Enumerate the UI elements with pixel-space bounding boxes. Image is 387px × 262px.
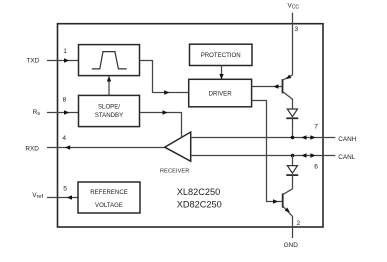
junction CANL node: [291, 154, 295, 158]
wire Vcc pin 3: [292, 13, 294, 75]
svg-text:SLOPE/: SLOPE/: [98, 103, 120, 110]
svg-text:Vref: Vref: [32, 192, 43, 200]
wire DRIVER output to Q2 base: [252, 101, 282, 202]
junction CANH node: [291, 136, 295, 140]
wire TXD pin 1: [47, 60, 79, 62]
svg-text:CANH: CANH: [338, 136, 356, 143]
wire PROTECTION down-arrow to DRIVER: [221, 66, 223, 80]
wire DRIVER output to Q1 base: [252, 86, 282, 88]
svg-text:XL82C250: XL82C250: [177, 187, 220, 197]
svg-text:RXD: RXD: [25, 145, 39, 152]
block PROTECTION: [190, 44, 253, 65]
svg-text:VCC: VCC: [288, 3, 300, 11]
svg-text:Rs: Rs: [33, 109, 41, 117]
block DRIVER: [189, 79, 252, 107]
svg-text:1: 1: [63, 48, 67, 55]
svg-text:4: 4: [62, 135, 66, 142]
block SLOPE/STANDBY: [79, 95, 140, 126]
wire Rs pin 8: [47, 112, 79, 114]
svg-text:3: 3: [295, 26, 299, 33]
svg-text:TXD: TXD: [27, 58, 40, 65]
svg-text:GND: GND: [284, 242, 299, 249]
svg-text:2: 2: [297, 220, 301, 227]
diode D2: [286, 156, 298, 189]
svg-text:DRIVER: DRIVER: [209, 90, 233, 97]
wire GND pin 2: [292, 216, 294, 238]
svg-text:STANDBY: STANDBY: [95, 112, 123, 119]
svg-text:VOLTAGE: VOLTAGE: [95, 202, 123, 209]
svg-text:RECEIVER: RECEIVER: [160, 169, 189, 175]
diode D1: [286, 109, 298, 138]
svg-text:7: 7: [314, 124, 318, 131]
op-amp RECEIVER comparator triangle: [165, 132, 191, 161]
wire RXD pin 4: [47, 147, 166, 149]
trapezoid waveform symbol: [92, 52, 127, 69]
chip outline: [58, 24, 324, 227]
svg-text:CANL: CANL: [338, 154, 355, 161]
svg-text:8: 8: [63, 96, 67, 103]
transistor Q1 high-side: [283, 75, 293, 109]
slew-rate limiter block (trapezoid waveform): [79, 45, 140, 76]
svg-text:6: 6: [314, 164, 318, 171]
wire Vref pin 5: [47, 197, 78, 199]
svg-text:XD82C250: XD82C250: [177, 199, 222, 209]
transistor Q2 low-side: [283, 189, 293, 217]
wire SLOPE/STANDBY to RECEIVER enable: [140, 113, 182, 138]
wire/net CANH pin 7: [191, 137, 336, 139]
wire limiter output to DRIVER input: [140, 61, 189, 93]
svg-text:PROTECTION: PROTECTION: [201, 52, 241, 59]
block REFERENCE VOLTAGE: [78, 182, 140, 213]
svg-text:5: 5: [63, 186, 67, 193]
wire SLOPE/STANDBY up-arrow to limiter: [108, 77, 110, 96]
svg-text:REFERENCE: REFERENCE: [90, 189, 128, 196]
wire/net CANL pin 6: [191, 155, 336, 157]
